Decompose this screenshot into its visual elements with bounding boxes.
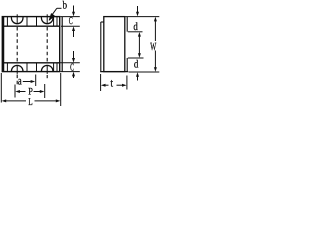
top terminal band line [2,25,59,27]
notch bottom 2 [41,65,53,71]
top view left edge inner line [2,17,4,72]
end view right cap top segment [126,17,128,32]
svg-text:a: a [18,74,22,88]
dim a: arrow [23,80,35,83]
bottom terminal band line [2,62,59,64]
dim L: text [28,97,32,108]
dim P: text [28,86,33,97]
label b leader [49,8,61,20]
dashed centerline node 2 [46,27,48,78]
dim C bottom: extension lines [59,63,80,72]
dim d top: extension lines [126,17,160,32]
dim C top: text [69,16,73,27]
dim d bottom: extension line [128,57,144,59]
dim t: arrows [101,84,127,87]
dim C top: arrows [72,6,75,38]
dim C bottom: arrows [72,51,75,78]
top band dividers [7,17,57,27]
label b text [63,0,68,11]
svg-text:C: C [70,63,74,74]
dim W: line and arrows [154,17,157,72]
dim d bottom: lower arrow [136,72,139,80]
dim L: extension lines [1,73,60,106]
top view right cap outer line [61,17,63,72]
dim t: extension lines [101,74,127,91]
svg-text:L: L [28,97,32,108]
dim a: right extension line [35,75,37,87]
dashed centerline node 1 [16,27,18,85]
bottom band dividers [7,63,57,72]
dim t: text [110,78,113,90]
dim a: text [18,74,22,88]
dim d top: upper arrow [136,6,139,16]
dim d bottom: text [134,59,139,71]
notch center ticks [17,14,47,74]
end view bottom edge over caps [100,71,128,73]
end view left cap [101,22,104,72]
svg-text:b: b [63,0,68,11]
svg-text:W: W [150,41,156,53]
dim L: arrows [2,99,61,102]
dim C top: extension lines [61,17,80,27]
svg-text:C: C [69,16,73,27]
end view body outline [104,17,125,72]
dim d top: text [133,21,138,33]
notch top 1 [11,17,23,24]
notch top 2 [41,17,53,24]
bottom extension line (W and d) [129,71,160,73]
end view right cap bottom segment [126,58,128,72]
svg-text:t: t [110,78,113,90]
notch bottom 1 [11,65,23,71]
svg-text:d: d [133,21,138,33]
svg-text:d: d [134,59,139,71]
dim P: arrows [15,90,44,93]
dim W: text [150,41,156,53]
top view body outline [2,17,59,72]
dim C bottom: text [70,63,74,74]
dim P: extension lines [15,84,45,98]
dim d double arrow between brackets [138,32,141,58]
svg-text:P: P [28,86,33,97]
